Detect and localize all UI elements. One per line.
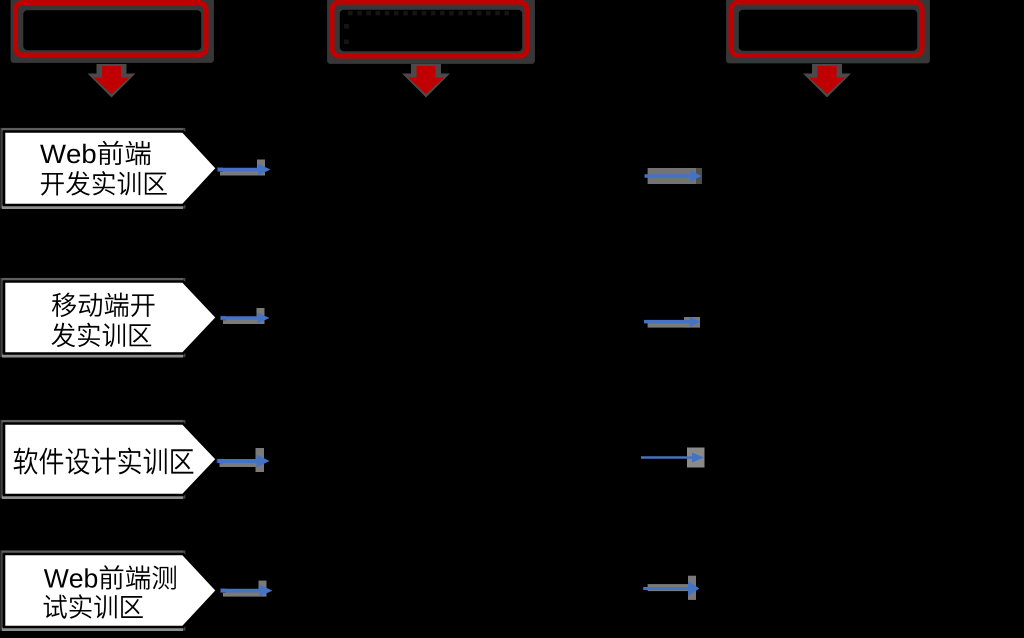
blue arrow middle row 2 (644, 317, 701, 328)
blue arrow left row 4 (220, 581, 273, 597)
blue arrow left row 3 (217, 448, 270, 472)
blue arrow middle row 1 (645, 168, 703, 184)
red down arrow 2 (402, 64, 450, 98)
box 2 inner shadow dashes (hidden text artifact) (344, 11, 509, 44)
red box 3 (top-right) (726, 0, 930, 63)
pentagon 1: Web前端开发实训区 (0, 128, 217, 209)
red down arrow 1 (88, 64, 136, 98)
blue arrow left row 2 (220, 308, 270, 324)
red box 1 (top-left) (11, 0, 214, 63)
pentagon 3: 软件设计实训区 (0, 420, 217, 499)
pentagon 2: 移动端开发实训区 (0, 278, 217, 358)
blue arrow middle row 4 (643, 576, 699, 600)
red box 2 (top-middle) (327, 0, 535, 64)
blue arrow left row 1 (217, 160, 271, 176)
red down arrow 3 (803, 64, 851, 98)
blue arrow middle row 3 (641, 448, 705, 468)
pentagon 4: Web前端测试实训区 (0, 550, 217, 631)
